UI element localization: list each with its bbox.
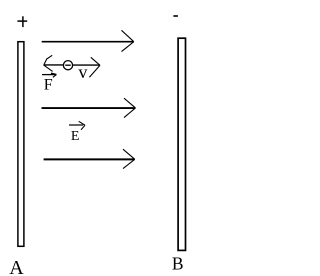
svg-text:F: F [44, 76, 53, 93]
charge q (negative particle) [63, 61, 72, 70]
svg-text:E: E [71, 129, 80, 144]
velocity arrow v pointing right [73, 57, 100, 77]
svg-text:v: v [78, 62, 87, 82]
plate A [18, 42, 24, 247]
force arrow F pointing left [44, 55, 64, 71]
field arrow bottom (wire) [44, 149, 135, 168]
minus sign in charge [65, 64, 71, 66]
field arrow middle (wire) [42, 98, 136, 117]
svg-text:B: B [172, 254, 184, 274]
minus label (-) above plate B [173, 15, 178, 17]
vector bar over F [42, 73, 56, 77]
plus label (+) above plate A [17, 16, 27, 27]
field arrow top (wire) [42, 30, 134, 51]
plate B [178, 38, 185, 250]
vector bar over E [69, 121, 85, 130]
svg-text:A: A [9, 257, 24, 276]
